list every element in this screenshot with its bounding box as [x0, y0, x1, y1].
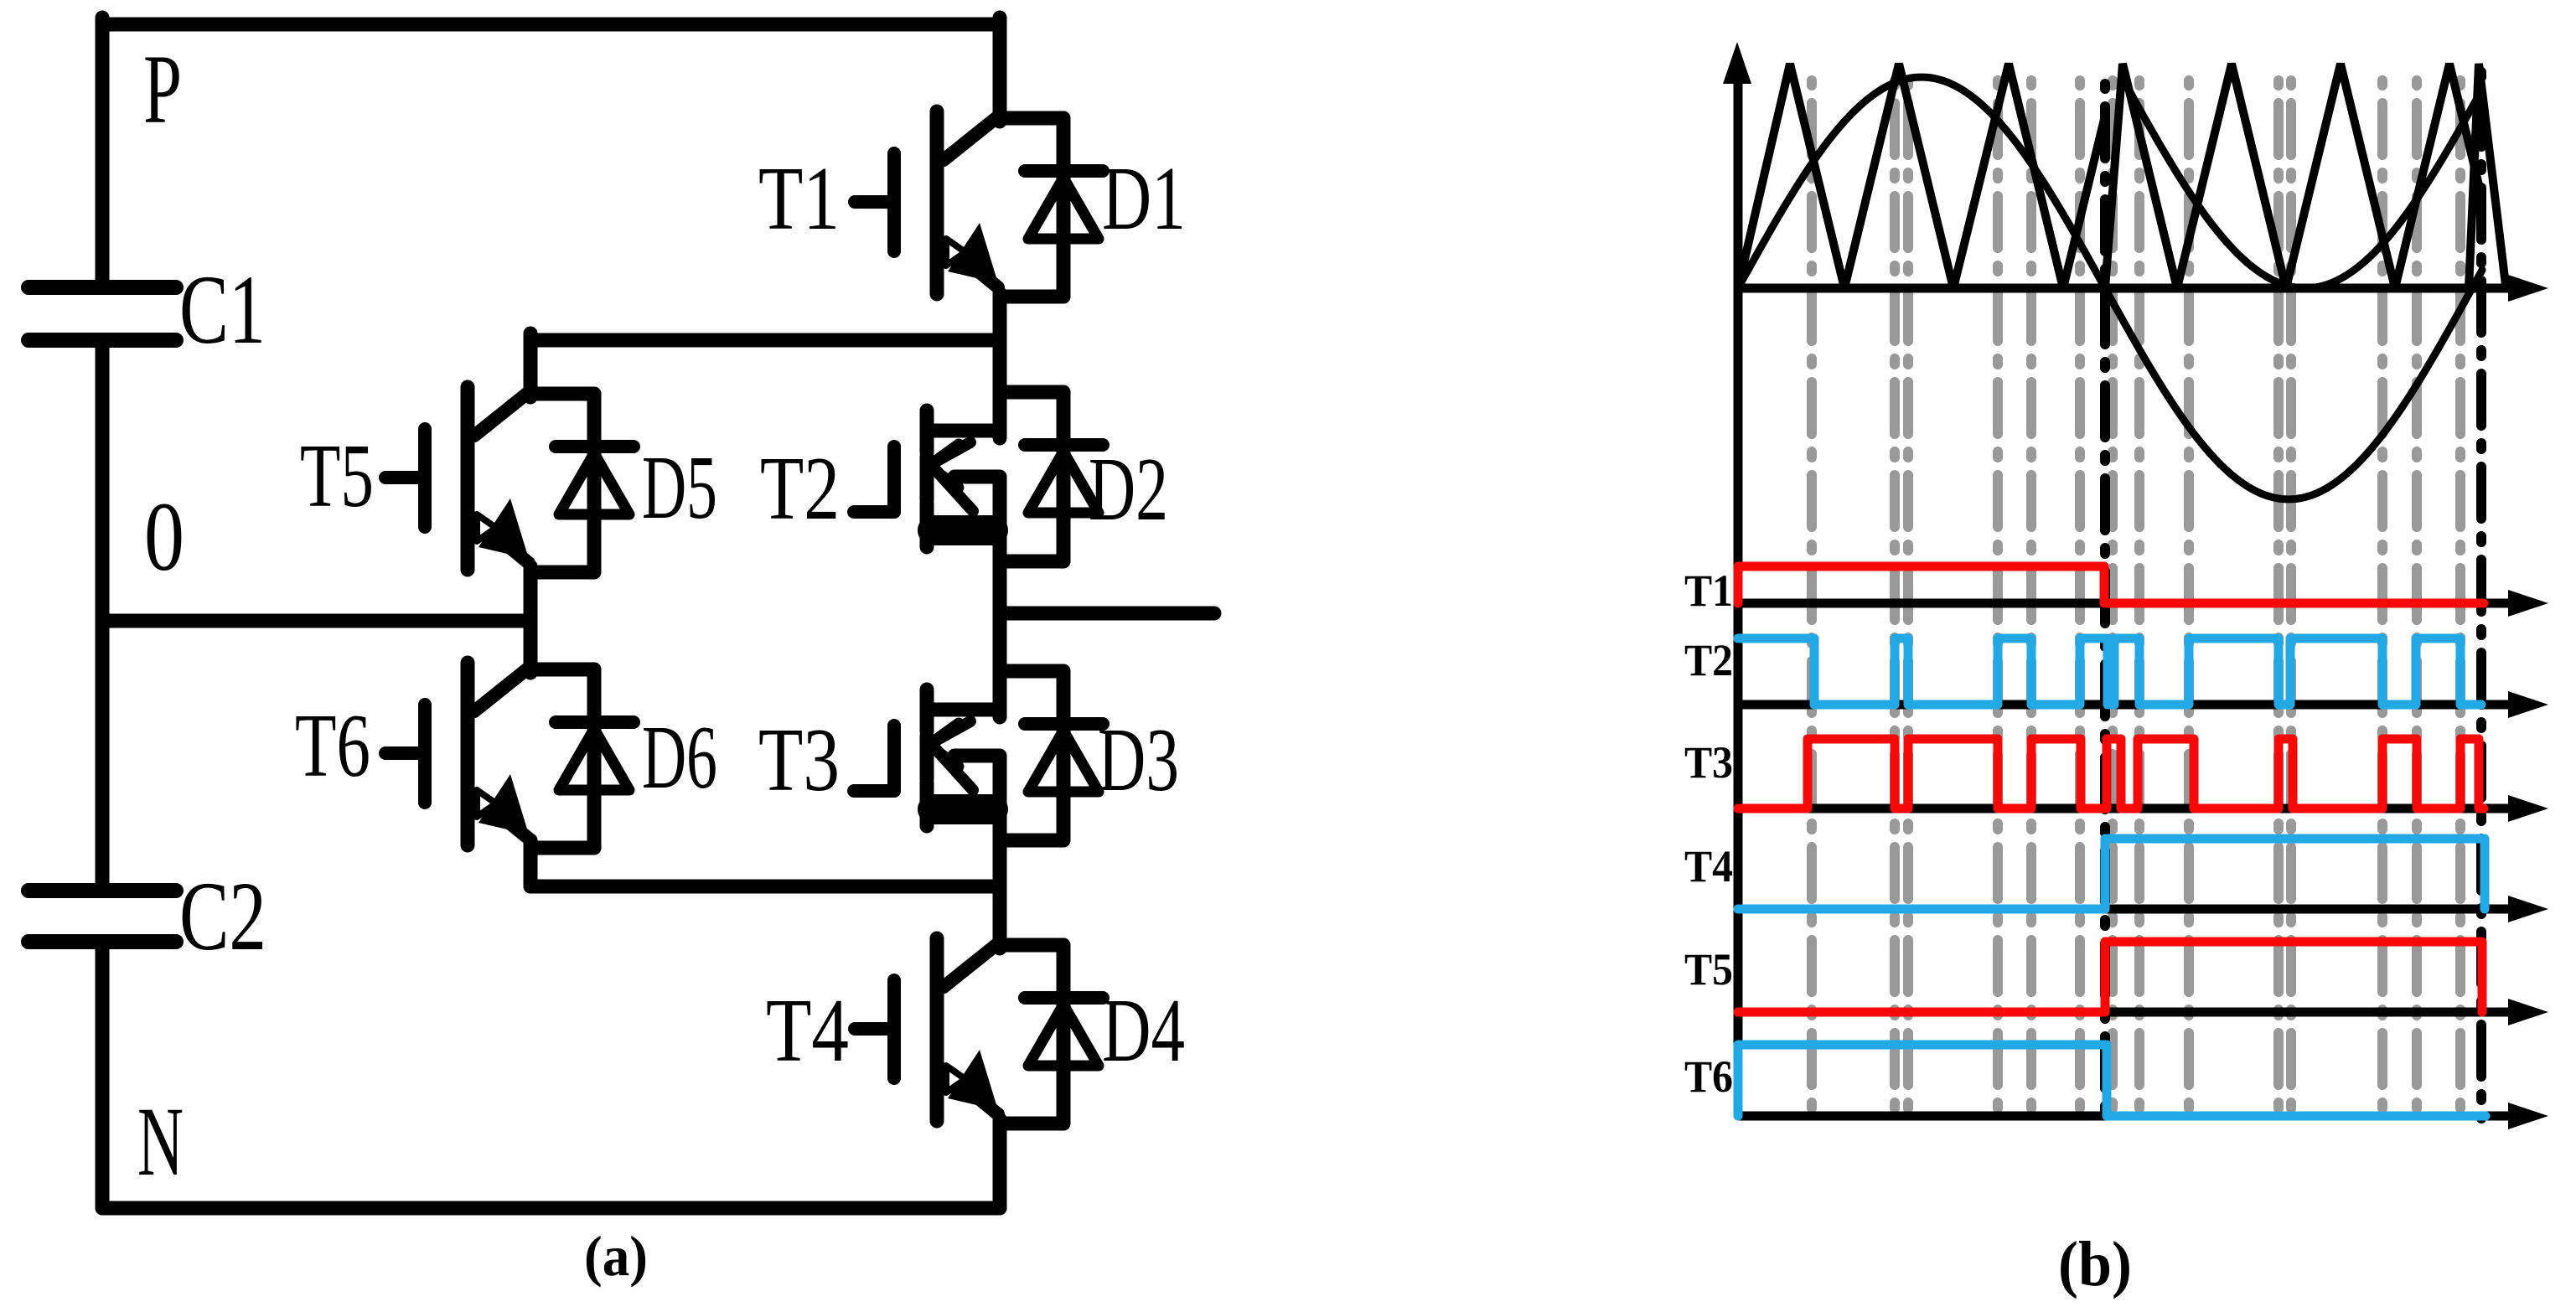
- svg-text:T4: T4: [1684, 841, 1733, 891]
- svg-text:D5: D5: [642, 438, 717, 538]
- diode D5: [530, 394, 634, 572]
- transistor T6 (IGBT): [385, 663, 529, 845]
- gate waveform T2 (blue PWM): [1738, 638, 2481, 705]
- axis of gate signal T4: [1738, 896, 2548, 922]
- svg-text:N: N: [137, 1087, 184, 1196]
- sinusoidal modulation wave: [1738, 77, 2482, 499]
- svg-text:(a): (a): [584, 1224, 648, 1288]
- axis of gate signal T1: [1738, 590, 2548, 617]
- transistor T1 (IGBT): [855, 111, 998, 294]
- svg-text:C1: C1: [179, 255, 266, 364]
- svg-text:T3: T3: [758, 710, 840, 810]
- capacitor C1: [28, 287, 176, 340]
- axis of gate signal T3: [1738, 795, 2548, 822]
- svg-text:T2: T2: [1684, 635, 1733, 685]
- diode D2: [1000, 392, 1103, 561]
- svg-text:(b): (b): [2058, 1229, 2132, 1299]
- svg-text:T4: T4: [766, 981, 849, 1081]
- gate waveform T5 (red): [1738, 942, 2482, 1012]
- carrier wave segment 2 (negative half-cycle): [2105, 64, 2481, 288]
- svg-text:D2: D2: [1089, 440, 1168, 540]
- transistor T3 (IGBT, reverse-oriented): [854, 690, 998, 826]
- svg-text:C2: C2: [179, 861, 266, 971]
- svg-text:P: P: [143, 34, 182, 144]
- gate waveform T1 (red): [1738, 566, 2484, 603]
- transistor T4 (IGBT): [855, 938, 998, 1121]
- carrier wave segment 1 (positive half-cycle): [1738, 64, 2105, 288]
- svg-text:T1: T1: [1684, 566, 1733, 616]
- wire: AC output stub: [1000, 607, 1214, 621]
- diode D6: [530, 669, 634, 848]
- gate waveform T4 (blue): [1738, 839, 2485, 909]
- wire: T2 emitter to T3 collector (output node): [993, 477, 1007, 717]
- diode D1: [1000, 118, 1103, 297]
- transistor T5 (IGBT): [385, 387, 529, 570]
- wire: neutral link from node 0 to T5/T6 midpoint: [102, 614, 530, 628]
- svg-text:T6: T6: [295, 696, 370, 796]
- carrier wave segment 3 (end): [2469, 64, 2506, 288]
- transistor T2 (IGBT, reverse-oriented): [854, 411, 998, 547]
- wire: left DC rail lower (C2 to N): [96, 942, 110, 1208]
- axis of gate signal T5: [1738, 999, 2548, 1025]
- y axis of modulation plot: [1723, 42, 1751, 1116]
- svg-text:D3: D3: [1098, 710, 1179, 810]
- capacitor C2: [28, 891, 176, 942]
- wire: clamp bottom link from T6 emitter to T3/T4 junction: [530, 840, 1000, 886]
- svg-text:D1: D1: [1102, 149, 1186, 249]
- diode D3: [1000, 671, 1103, 840]
- wire: T3 emitter to T4 collector (node between T3 and T4): [993, 756, 1007, 948]
- svg-text:D4: D4: [1102, 981, 1185, 1081]
- gate waveform T3 (red PWM): [1738, 739, 2484, 808]
- sector boundary markers (black dash-dot lines): [2105, 72, 2481, 1118]
- wire: T4 emitter down to bottom rail: [993, 1119, 1007, 1208]
- svg-text:0: 0: [144, 482, 184, 591]
- wire: left DC rail middle (C1 to C2 through node 0): [96, 340, 110, 891]
- wire: main branch P rail down to T1 collector: [993, 18, 1007, 121]
- folded modulation wave (1+sin) in upper band: [2122, 77, 2479, 288]
- wire: T5 emitter to T6 collector: [524, 566, 538, 673]
- switching instant markers (gray dash-dot gridlines): [1812, 80, 2460, 1110]
- x axis of modulation plot: [1738, 275, 2548, 302]
- diode D4: [1000, 945, 1103, 1123]
- svg-text:T5: T5: [1684, 944, 1733, 994]
- svg-text:T3: T3: [1684, 737, 1733, 788]
- axis of gate signal T6: [1738, 1103, 2548, 1129]
- wire: clamp top link from T1/T2 junction to T5 collector: [530, 333, 1000, 397]
- wire: T1 emitter to T2 collector (node between T1 and T2): [993, 293, 1007, 438]
- axis of gate signal T2: [1738, 691, 2548, 718]
- wire: left DC rail upper (P to C1): [96, 18, 110, 287]
- wire: top rail from node P to T1 branch: [102, 18, 1000, 32]
- svg-text:D6: D6: [642, 708, 717, 808]
- svg-text:T5: T5: [300, 426, 374, 526]
- gate waveform T6 (blue): [1738, 1045, 2485, 1116]
- svg-text:T1: T1: [758, 149, 840, 249]
- svg-text:T6: T6: [1684, 1051, 1733, 1102]
- svg-text:T2: T2: [760, 439, 840, 539]
- wire: bottom rail from N to T4 emitter: [102, 1201, 1000, 1216]
